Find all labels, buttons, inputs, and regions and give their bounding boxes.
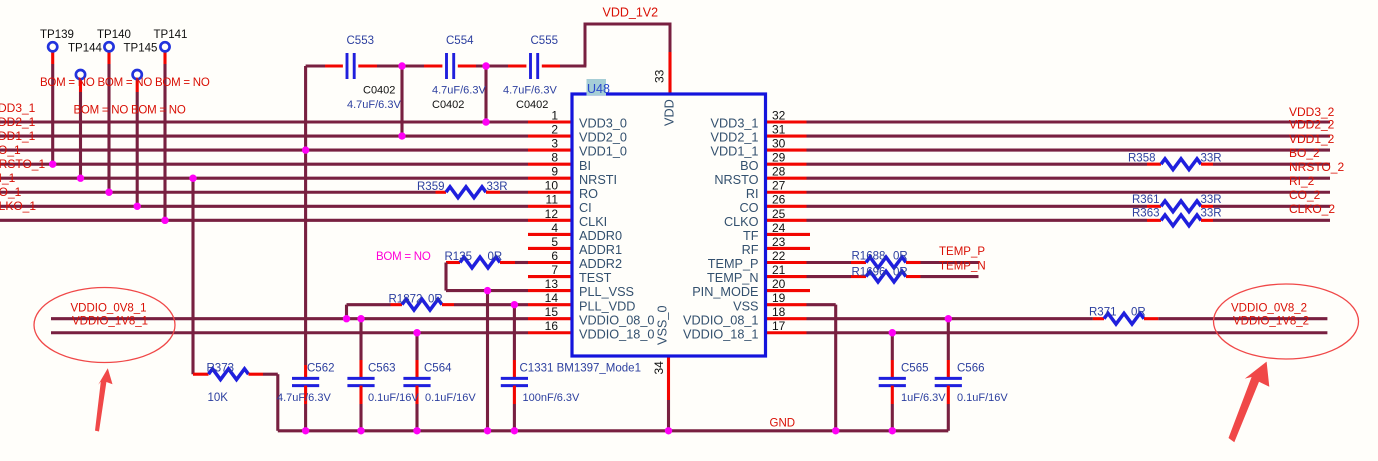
svg-text:VDD3_1: VDD3_1: [0, 101, 36, 115]
svg-text:ADDR2: ADDR2: [579, 257, 622, 271]
svg-text:16: 16: [545, 319, 559, 333]
capacitor C553 right terminal: [358, 64, 377, 67]
svg-text:CI: CI: [579, 201, 592, 215]
capacitor C566 top terminal: [947, 360, 950, 378]
svg-text:TF: TF: [743, 229, 759, 243]
wire net BO_1 left bus row 4: [0, 163, 528, 166]
svg-text:TEMP_P: TEMP_P: [708, 257, 759, 271]
pin 25 stub right: [766, 219, 807, 222]
junction C562/GND: [302, 427, 309, 434]
resistor R359: [446, 187, 486, 198]
wire net VDD2_1 left bus row 2: [0, 135, 528, 138]
pin 7 stub left: [528, 275, 572, 278]
svg-text:C566: C566: [957, 362, 985, 374]
wire net VDDIO_0V8_1 to pin15: [51, 317, 528, 320]
svg-text:0.1uF/16V: 0.1uF/16V: [368, 392, 419, 404]
resistor R135 right terminal: [500, 261, 515, 264]
wire PLL_VSS pin13: [446, 289, 528, 292]
wire TP139 to BO_1: [51, 64, 54, 164]
svg-text:4.7uF/6.3V: 4.7uF/6.3V: [432, 85, 486, 97]
svg-text:0.1uF/16V: 0.1uF/16V: [425, 392, 476, 404]
svg-text:CLKO_2: CLKO_2: [1289, 202, 1335, 216]
resistor R1688 right terminal: [906, 261, 921, 264]
testpoint TP140: [104, 42, 113, 51]
wire GND rail: [278, 429, 949, 432]
testpoint TP141 pin wire: [163, 52, 166, 64]
svg-text:6: 6: [551, 249, 558, 263]
wire net CO_2 right: [807, 205, 1148, 208]
svg-text:VDD1_1: VDD1_1: [711, 145, 759, 159]
wire VDDIO_08_1 from pin18: [807, 317, 1093, 320]
svg-text:7: 7: [551, 263, 558, 277]
junction pin34/GND: [665, 427, 672, 434]
junction C563/VDDIO_08: [357, 315, 364, 322]
svg-text:VDDIO_18_0: VDDIO_18_0: [579, 327, 654, 341]
wire net VDDIO_1V8_1 to pin16: [51, 331, 528, 334]
svg-text:RF: RF: [742, 243, 759, 257]
wire net VDD1_1 left bus row 3: [0, 149, 528, 152]
capacitor C564 plates: [403, 377, 430, 380]
svg-text:4.7uF/6.3V: 4.7uF/6.3V: [347, 99, 401, 111]
svg-text:BOM = NO: BOM = NO: [376, 251, 431, 263]
svg-text:BOM = NO BOM = NO BOM = NO: BOM = NO BOM = NO BOM = NO: [40, 77, 210, 89]
svg-text:C555: C555: [531, 35, 559, 47]
wire R358 to net BO_2: [1213, 163, 1330, 166]
wire pin34 to GND rail: [667, 400, 670, 431]
svg-text:0.1uF/16V: 0.1uF/16V: [957, 392, 1008, 404]
svg-text:VSS: VSS: [733, 299, 758, 313]
pin 31 stub right: [766, 135, 807, 138]
svg-text:27: 27: [772, 179, 786, 193]
svg-text:33R: 33R: [1201, 207, 1222, 219]
junction PLL_VSS/GND: [484, 427, 491, 434]
wire VDD1_1 to C553: [306, 64, 325, 67]
svg-text:18: 18: [772, 305, 786, 319]
svg-text:VDDIO_0V8_1: VDDIO_0V8_1: [71, 303, 147, 315]
resistor R1696: [866, 271, 906, 282]
wire C562 to GND rail: [304, 404, 307, 431]
wire node VDD2_1 cap row: [377, 64, 424, 67]
resistor R1872 right terminal: [442, 303, 454, 306]
capacitor C563 top terminal: [359, 360, 362, 378]
svg-text:VDDIO_1V8_2: VDDIO_1V8_2: [1233, 316, 1309, 328]
resistor R373 left terminal: [193, 373, 209, 376]
wire C555 to VDD_1V2 corner: [560, 64, 586, 67]
svg-text:33R: 33R: [1201, 153, 1222, 165]
wire R373 to GND corner: [263, 373, 278, 376]
capacitor C1331 plates: [501, 377, 528, 380]
junction PLL_VSS/GND branch: [484, 287, 491, 294]
wire C564 to GND rail: [415, 404, 418, 431]
svg-text:PLL_VSS: PLL_VSS: [579, 285, 634, 299]
junction R373 branch on NRSTO_1: [189, 175, 196, 182]
svg-text:CLKO_1: CLKO_1: [0, 199, 36, 213]
resistor R373: [209, 369, 249, 380]
svg-text:3: 3: [551, 137, 558, 151]
resistor R359 left terminal: [436, 191, 447, 194]
svg-text:R361: R361: [1132, 194, 1160, 206]
capacitor C564 bottom terminal: [415, 386, 418, 404]
op-amp U48 BM1397 IC body: [572, 94, 766, 356]
wire TEMP_N from pin21: [807, 275, 852, 278]
wire C566 to GND rail: [947, 404, 950, 431]
capacitor C562 bottom terminal: [304, 386, 307, 404]
wire net VDD1_2 right bus row 3: [807, 149, 1331, 152]
resistor R371: [1104, 313, 1144, 324]
svg-text:TEMP_N: TEMP_N: [939, 261, 986, 273]
annotation arrow right: [1229, 362, 1270, 443]
wire R373 down to GND rail: [276, 374, 279, 431]
testpoint TP140 pin wire: [107, 52, 110, 64]
svg-text:0R: 0R: [893, 267, 908, 279]
svg-text:33R: 33R: [1201, 194, 1222, 206]
svg-text:RO: RO: [579, 187, 598, 201]
pin 8 stub left: [528, 163, 572, 166]
svg-text:29: 29: [772, 151, 786, 165]
resistor R1696 right terminal: [906, 275, 921, 278]
junction C566/VDDIO_0V8_2: [945, 315, 952, 322]
capacitor C555 right terminal: [542, 64, 560, 67]
wire net TEMP_N: [921, 275, 979, 278]
resistor R135: [460, 257, 500, 268]
svg-text:TP144: TP144: [68, 43, 102, 55]
svg-text:4.7uF/6.3V: 4.7uF/6.3V: [503, 85, 557, 97]
wire VDDIO_0V8_2 to C566: [947, 319, 950, 360]
capacitor C565 top terminal: [891, 360, 894, 378]
svg-text:19: 19: [772, 291, 786, 305]
capacitor C562 top terminal: [304, 365, 307, 378]
pin 16 stub left: [528, 331, 572, 334]
svg-text:BOM = NO BOM = NO: BOM = NO BOM = NO: [74, 105, 186, 117]
junction node C553/C554: [398, 62, 405, 69]
resistor R1688 left terminal: [851, 261, 866, 264]
testpoint TP145: [133, 70, 142, 79]
pin 33 stub VDD: [668, 52, 671, 95]
junction VSS/GND: [832, 427, 839, 434]
resistor R359 right terminal: [486, 191, 500, 194]
resistor R363 left terminal: [1147, 219, 1161, 222]
testpoint TP139 pin wire: [51, 52, 54, 64]
svg-text:BO_1: BO_1: [0, 143, 21, 157]
svg-text:C553: C553: [347, 35, 375, 47]
pin 19 stub right: [766, 303, 807, 306]
capacitor C554 left terminal: [424, 64, 442, 67]
resistor R1688: [866, 257, 906, 268]
svg-text:22: 22: [772, 249, 786, 263]
wire net CLKO_2 right: [807, 219, 1148, 222]
svg-text:VDD2_1: VDD2_1: [711, 131, 759, 145]
resistor R363: [1161, 215, 1201, 226]
pin 9 stub left: [528, 177, 572, 180]
svg-text:C0402: C0402: [363, 85, 395, 97]
svg-text:TEMP_N: TEMP_N: [707, 271, 758, 285]
capacitor C563 plates: [347, 377, 374, 380]
wire VDD1_1 vertical to C562: [304, 66, 307, 365]
svg-text:0R: 0R: [893, 251, 908, 263]
svg-text:CO_2: CO_2: [1289, 188, 1321, 202]
svg-text:TEST: TEST: [579, 271, 612, 285]
junction C565/VDDIO_1V8_2: [889, 329, 896, 336]
wire R363 to net CLKO_2: [1213, 219, 1330, 222]
wire VDDIO_1V8_2 to C565: [891, 333, 894, 360]
capacitor C566 bottom terminal: [947, 386, 950, 404]
wire C565 to GND rail: [891, 404, 894, 431]
svg-text:NRSTO: NRSTO: [714, 173, 758, 187]
svg-text:R1696: R1696: [852, 267, 886, 279]
pin 4 stub left: [528, 233, 572, 236]
wire TP145 to CO_1: [136, 92, 139, 206]
testpoint TP139: [48, 42, 57, 51]
svg-text:VSS_0: VSS_0: [656, 306, 670, 346]
wire R135 to pin6: [515, 261, 528, 264]
wire net VDDIO_1V8_2 from pin17: [807, 331, 1328, 334]
wire VSS pin19: [807, 303, 836, 306]
pin 29 stub right: [766, 163, 807, 166]
wire net NRSTO_2 right bus row 5: [807, 177, 1331, 180]
svg-text:R371: R371: [1089, 307, 1117, 319]
svg-text:20: 20: [772, 277, 786, 291]
wire R1872 to pin14: [454, 303, 528, 306]
resistor R358 right terminal: [1201, 163, 1213, 166]
pin 15 stub left: [528, 317, 572, 320]
wire net BO_2 right: [807, 163, 1148, 166]
svg-text:R363: R363: [1132, 207, 1160, 219]
pin 10 stub left: [528, 191, 572, 194]
svg-text:C565: C565: [901, 362, 929, 374]
svg-text:4: 4: [551, 221, 558, 235]
wire R359 to pin10: [500, 191, 528, 194]
svg-text:BO_2: BO_2: [1289, 146, 1320, 160]
junction TP144/NRSTO_1: [77, 175, 84, 182]
resistor R358 left terminal: [1147, 163, 1161, 166]
wire R135 down to PLL_VSS: [444, 263, 447, 291]
junction node C554/C555: [482, 62, 489, 69]
svg-text:30: 30: [772, 137, 786, 151]
svg-text:9: 9: [551, 165, 558, 179]
wire net NRSTO_1 left bus row 5: [0, 177, 528, 180]
svg-text:17: 17: [772, 319, 786, 333]
resistor R361 right terminal: [1201, 205, 1213, 208]
pin 24 stub right: [766, 233, 811, 236]
svg-text:VDDIO_18_1: VDDIO_18_1: [683, 327, 758, 341]
pin 17 stub right: [766, 331, 807, 334]
capacitor C1331 bottom terminal: [513, 386, 516, 404]
resistor R1872 left terminal: [391, 303, 403, 306]
pin 14 stub left: [528, 303, 572, 306]
svg-text:ADDR1: ADDR1: [579, 243, 622, 257]
wire R1872 down to VDDIO_08 net: [345, 305, 348, 319]
svg-text:U48: U48: [587, 82, 610, 96]
pin 11 stub left: [528, 205, 572, 208]
wire net VDD3_2 right bus row 1: [807, 120, 1331, 123]
svg-text:12: 12: [545, 207, 559, 221]
svg-text:VDDIO_0V8_2: VDDIO_0V8_2: [1231, 303, 1307, 315]
svg-text:26: 26: [772, 193, 786, 207]
wire VSS down to GND rail: [834, 305, 837, 431]
junction TP145/CO_1: [134, 203, 141, 210]
U48 reference highlight: [587, 79, 607, 96]
svg-text:25: 25: [772, 207, 786, 221]
resistor R1872: [402, 299, 442, 310]
wire TP140 to RI_1: [107, 64, 110, 192]
testpoint TP145 pin wire: [136, 79, 139, 92]
junction TP140/RI_1: [105, 189, 112, 196]
capacitor C554 plates: [445, 53, 448, 79]
svg-text:PIN_MODE: PIN_MODE: [692, 285, 758, 299]
svg-text:C1331 BM1397_Mode1: C1331 BM1397_Mode1: [520, 362, 641, 374]
wire net RI_2 right bus row 6: [807, 191, 1331, 194]
svg-text:4.7uF/6.3V: 4.7uF/6.3V: [277, 392, 331, 404]
wire net VDD3_1 left bus row 1: [0, 120, 528, 123]
svg-text:C562: C562: [307, 362, 335, 374]
wire net CO_1 left bus row 7: [0, 205, 528, 208]
svg-text:21: 21: [772, 263, 786, 277]
svg-text:VDD1_0: VDD1_0: [579, 145, 627, 159]
svg-text:TP139: TP139: [40, 29, 74, 41]
svg-text:R359: R359: [417, 181, 445, 193]
pin 28 stub right: [766, 177, 807, 180]
svg-text:1uF/6.3V: 1uF/6.3V: [901, 392, 946, 404]
svg-text:32: 32: [772, 108, 786, 122]
svg-text:RI_2: RI_2: [1289, 174, 1315, 188]
annotation arrow left: [95, 368, 113, 431]
svg-text:CO_1: CO_1: [0, 185, 22, 199]
wire net VDDIO_0V8_2: [1158, 317, 1327, 320]
svg-text:C563: C563: [368, 362, 396, 374]
svg-text:GND: GND: [770, 418, 796, 430]
pin 13 stub left: [528, 289, 572, 292]
svg-text:R1872: R1872: [389, 293, 423, 305]
svg-text:33R: 33R: [487, 181, 508, 193]
wire R361 to net CO_2: [1213, 205, 1330, 208]
capacitor C553 plates: [346, 53, 349, 79]
svg-text:TP141: TP141: [154, 29, 188, 41]
wire node VDD3_1 cap row: [476, 64, 508, 67]
svg-text:C0402: C0402: [516, 99, 548, 111]
pin 6 stub left: [528, 261, 572, 264]
capacitor C564 top terminal: [415, 360, 418, 378]
svg-text:TEMP_P: TEMP_P: [939, 246, 985, 258]
wire net CLKO_1 left bus row 8: [0, 219, 528, 222]
wire VDDIO_08 to C563: [359, 319, 362, 360]
pin 5 stub left: [528, 247, 572, 250]
capacitor C566 plates: [935, 377, 962, 380]
svg-text:24: 24: [772, 221, 786, 235]
svg-text:C0402: C0402: [432, 99, 464, 111]
capacitor C562 plates: [292, 377, 319, 380]
testpoint TP141: [160, 42, 169, 51]
wire net RI_1 row6 left: [0, 191, 436, 194]
svg-text:BI: BI: [579, 159, 591, 173]
capacitor C565 plates: [879, 377, 906, 380]
pin 1 stub left: [528, 120, 572, 123]
wire NRSTO_1 down to R373: [191, 178, 194, 374]
svg-text:5: 5: [551, 235, 558, 249]
junction TP141/CLKO_1: [161, 217, 168, 224]
pin 32 stub right: [766, 120, 807, 123]
svg-text:10: 10: [545, 179, 559, 193]
wire TEMP_P from pin22: [807, 261, 852, 264]
svg-text:10K: 10K: [208, 392, 229, 404]
pin 20 stub right: [766, 289, 811, 292]
wire cap node to VDD3_1: [484, 66, 487, 122]
svg-text:31: 31: [772, 122, 786, 136]
svg-text:VDD3_0: VDD3_0: [579, 117, 627, 131]
svg-text:TP145: TP145: [124, 43, 158, 55]
wire TP144 to NRSTO_1: [79, 92, 82, 178]
svg-text:RI: RI: [746, 187, 759, 201]
resistor R358: [1161, 159, 1201, 170]
junction C1331/PLL_VDD: [511, 301, 518, 308]
pin 3 stub left: [528, 149, 572, 152]
annotation ellipse right: [1214, 284, 1359, 359]
svg-text:VDDIO_08_1: VDDIO_08_1: [683, 313, 758, 327]
pin 30 stub right: [766, 149, 807, 152]
capacitor C563 bottom terminal: [359, 386, 362, 404]
svg-text:1: 1: [551, 108, 558, 122]
pin 22 stub right: [766, 261, 807, 264]
pin 27 stub right: [766, 191, 807, 194]
svg-text:R1688: R1688: [852, 251, 886, 263]
svg-text:VDDIO_1V8_1: VDDIO_1V8_1: [72, 316, 148, 328]
wire TP141 to CLKO_1: [163, 64, 166, 220]
capacitor C554 right terminal: [458, 64, 476, 67]
svg-text:28: 28: [772, 165, 786, 179]
wire C563 to GND rail: [359, 404, 362, 431]
svg-text:CLKO: CLKO: [724, 215, 759, 229]
svg-text:R135: R135: [445, 251, 473, 263]
svg-text:NRSTO_2: NRSTO_2: [1289, 160, 1344, 174]
junction C564/GND: [413, 427, 420, 434]
annotation ellipse left: [34, 288, 175, 363]
testpoint TP144: [76, 70, 85, 79]
svg-text:VDD_1V2: VDD_1V2: [603, 6, 659, 20]
svg-text:VDD2_1: VDD2_1: [0, 115, 36, 129]
pin 34 stub VSS_0: [667, 356, 670, 400]
junction R1872/VDDIO_08: [343, 315, 350, 322]
wire VDDIO_18 to C564: [415, 333, 418, 360]
svg-text:VDD2_2: VDD2_2: [1289, 118, 1335, 132]
svg-text:15: 15: [545, 305, 559, 319]
pin 18 stub right: [766, 317, 807, 320]
svg-text:BO: BO: [740, 159, 758, 173]
svg-text:VDD1_2: VDD1_2: [1289, 132, 1335, 146]
svg-text:R358: R358: [1128, 153, 1156, 165]
wire net TEMP_P: [921, 261, 979, 264]
svg-text:PLL_VDD: PLL_VDD: [579, 299, 635, 313]
pin 12 stub left: [528, 219, 572, 222]
resistor R361: [1161, 201, 1201, 212]
svg-text:0R: 0R: [488, 251, 503, 263]
svg-text:NRSTO_1: NRSTO_1: [0, 157, 45, 171]
wire net VDD_1V2: [585, 24, 670, 66]
svg-text:11: 11: [546, 193, 559, 207]
capacitor C555 plates: [529, 53, 532, 79]
resistor R135 left terminal: [446, 261, 460, 264]
svg-text:ADDR0: ADDR0: [579, 229, 622, 243]
resistor R361 left terminal: [1147, 205, 1161, 208]
resistor R1696 left terminal: [851, 275, 866, 278]
svg-text:23: 23: [772, 235, 786, 249]
svg-text:VDD: VDD: [663, 99, 677, 126]
svg-text:34: 34: [652, 361, 666, 375]
junction C563/GND: [357, 427, 364, 434]
junction C1331/GND: [511, 427, 518, 434]
svg-text:TP140: TP140: [97, 29, 131, 41]
junction C564/VDDIO_18: [413, 329, 420, 336]
svg-text:13: 13: [545, 277, 559, 291]
svg-text:100nF/6.3V: 100nF/6.3V: [523, 392, 581, 404]
